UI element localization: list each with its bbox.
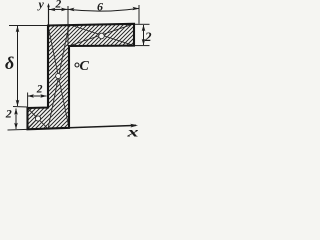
Γ-section outline: [28, 24, 135, 130]
y axis arrowhead: [47, 3, 50, 8]
svg-text:6: 6: [97, 0, 103, 14]
web diagonal 2: [48, 25, 69, 129]
extension line x=68 through flange: [67, 6, 69, 46]
svg-text:2: 2: [144, 29, 152, 44]
flange diagonal 2: [69, 24, 134, 46]
bottom 2: left extension line: [27, 93, 29, 109]
flange diagonal 1: [69, 25, 134, 46]
svg-text:2: 2: [36, 83, 43, 95]
arrow right at x=67.5: [61, 8, 68, 12]
right 2: down arrow: [142, 39, 146, 46]
right 2: bottom extension line: [135, 45, 150, 47]
right 2: up arrow: [142, 25, 146, 32]
bottom extension to left: [8, 128, 28, 131]
left 8: up arrow: [16, 26, 20, 33]
svg-text:2: 2: [55, 0, 62, 11]
web diagonal 1: [48, 26, 69, 128]
x axis arrowhead: [130, 124, 138, 128]
centroid C circle: [75, 63, 79, 67]
left lower 2: down arrow: [14, 123, 18, 130]
svg-text:y: y: [37, 0, 45, 11]
hatched Γ-section fill: [0, 0, 157, 141]
left 8: down arrow: [16, 100, 20, 107]
extension line x=139: [138, 5, 140, 24]
centroid circle C1 (web): [56, 73, 61, 78]
left 8: dimension line: [17, 26, 19, 106]
x axis: [69, 125, 136, 127]
svg-text:δ: δ: [5, 53, 14, 73]
right 2: dimension line: [143, 25, 145, 45]
foot diagonal 1: [28, 108, 49, 129]
foot-top extension to left: [13, 106, 28, 109]
svg-text:x: x: [126, 125, 139, 140]
y axis: [48, 5, 50, 26]
arrow left at x=67.9 (start of 6): [68, 8, 75, 12]
arrow left at y-axis: [49, 8, 56, 12]
bottom 2: left arrow: [27, 94, 34, 98]
right 2: top extension line: [135, 23, 150, 25]
foot diagonal 2: [28, 108, 49, 130]
svg-text:2: 2: [5, 107, 12, 121]
arrow right at x=139: [133, 7, 140, 11]
bottom 2: right arrow: [40, 94, 47, 98]
bottom 2 dim: dimension line: [28, 95, 47, 97]
left 8: top extension line: [9, 25, 47, 27]
left lower 2: up arrow: [14, 108, 18, 115]
left lower 2: dimension line: [15, 109, 17, 130]
top dimension line: [49, 8, 68, 10]
centroid circle C2 (flange): [99, 33, 105, 39]
centroid circle C3 (foot): [35, 116, 40, 121]
svg-text:C: C: [80, 59, 90, 74]
